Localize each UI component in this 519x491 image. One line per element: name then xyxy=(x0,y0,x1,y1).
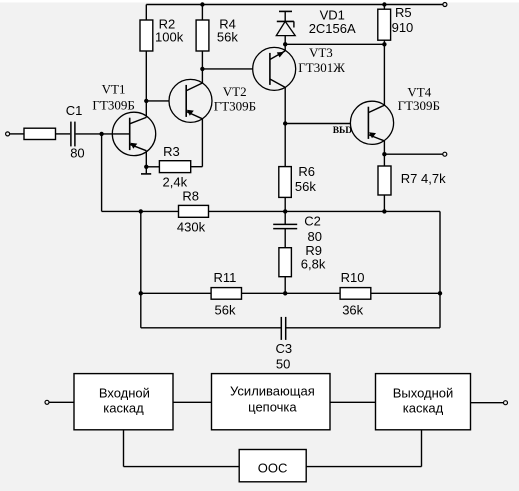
svg-text:R5: R5 xyxy=(395,5,412,20)
svg-text:R7 4,7k: R7 4,7k xyxy=(401,171,446,186)
svg-text:C2: C2 xyxy=(304,213,321,228)
svg-text:каскад: каскад xyxy=(403,401,444,416)
svg-text:цепочка: цепочка xyxy=(248,400,297,415)
svg-text:VT2: VT2 xyxy=(223,84,247,99)
svg-text:Усиливающая: Усиливающая xyxy=(230,384,315,399)
svg-text:R10: R10 xyxy=(341,270,365,285)
svg-text:VT3: VT3 xyxy=(309,45,333,60)
svg-text:6,8k: 6,8k xyxy=(301,256,326,271)
svg-text:ООС: ООС xyxy=(258,460,288,475)
svg-text:R8: R8 xyxy=(182,188,199,203)
svg-text:80: 80 xyxy=(308,229,322,244)
svg-text:ВЬD: ВЬD xyxy=(333,126,353,136)
svg-text:ГТ309Б: ГТ309Б xyxy=(398,98,440,113)
svg-text:2,4k: 2,4k xyxy=(163,174,188,189)
svg-text:430k: 430k xyxy=(177,220,206,235)
svg-text:R11: R11 xyxy=(214,270,237,285)
svg-text:Выходной: Выходной xyxy=(393,386,454,401)
svg-text:56k: 56k xyxy=(217,30,238,45)
svg-text:80: 80 xyxy=(70,145,84,160)
svg-text:56k: 56k xyxy=(215,302,236,317)
svg-text:ГТ309Б: ГТ309Б xyxy=(214,98,256,113)
svg-text:910: 910 xyxy=(392,20,414,35)
svg-text:R6: R6 xyxy=(298,164,315,179)
svg-text:56k: 56k xyxy=(295,179,316,194)
svg-text:ГТ309Б: ГТ309Б xyxy=(92,98,134,113)
svg-text:100k: 100k xyxy=(155,30,184,45)
svg-text:50: 50 xyxy=(276,357,290,372)
svg-text:36k: 36k xyxy=(342,302,363,317)
svg-text:C3: C3 xyxy=(276,341,293,356)
svg-text:каскад: каскад xyxy=(103,401,144,416)
svg-text:Входной: Входной xyxy=(99,386,150,401)
svg-text:VT1: VT1 xyxy=(102,81,126,96)
svg-text:R3: R3 xyxy=(163,144,180,159)
svg-text:2С156А: 2С156А xyxy=(309,21,356,36)
svg-text:C1: C1 xyxy=(66,103,83,118)
svg-text:ГТ301Ж: ГТ301Ж xyxy=(298,60,345,75)
